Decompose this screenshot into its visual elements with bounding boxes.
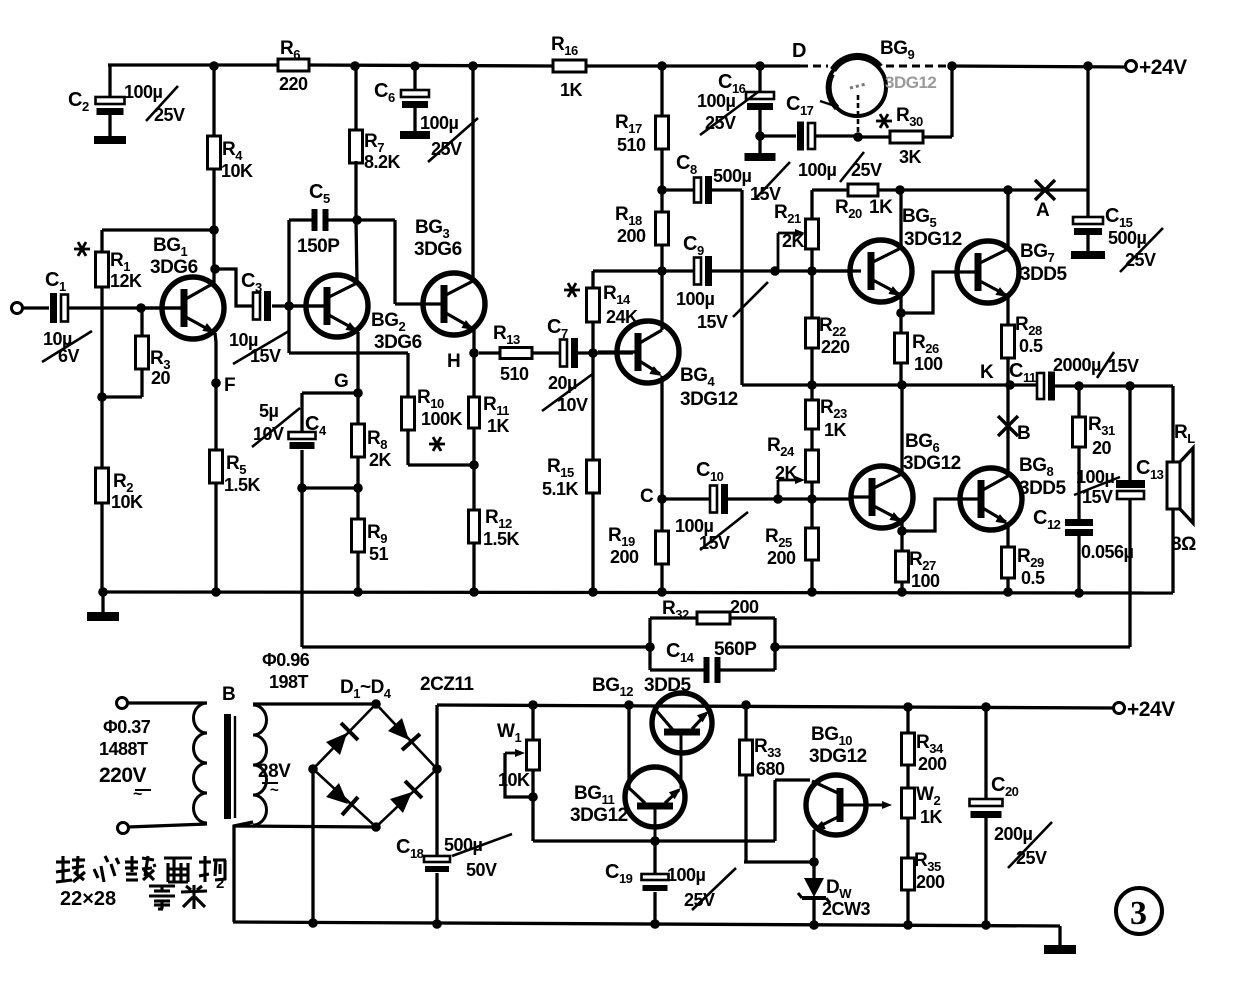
- svg-text:25V: 25V: [1125, 250, 1156, 270]
- resistor R5 1.5K: [214, 383, 217, 450]
- capacitor C6 100µ/25V: [413, 66, 416, 90]
- capacitor C15 500µ/25V: [1086, 190, 1089, 217]
- rheostat W2 1K: [902, 788, 915, 818]
- svg-text:100µ: 100µ: [798, 160, 837, 180]
- svg-text:B: B: [1017, 423, 1030, 444]
- svg-text:200: 200: [767, 548, 796, 568]
- svg-text:3: 3: [1130, 895, 1147, 932]
- node R2 top junction: [97, 392, 107, 402]
- wire feedback to R32 C14: [300, 488, 303, 647]
- svg-text:3DG12: 3DG12: [885, 73, 936, 92]
- resistor R12 1.5K: [472, 465, 475, 510]
- svg-text:220V: 220V: [99, 764, 147, 787]
- svg-text:100µ: 100µ: [124, 82, 163, 102]
- transformer core: [224, 714, 231, 819]
- resistor R1 12K: [100, 230, 103, 252]
- svg-text:5.1K: 5.1K: [542, 479, 579, 499]
- svg-text:1488T: 1488T: [99, 739, 148, 759]
- svg-text:~: ~: [133, 786, 142, 803]
- svg-text:25V: 25V: [851, 160, 882, 180]
- svg-text:C: C: [640, 486, 654, 507]
- wire BG1 collector to C3: [210, 264, 220, 274]
- capacitor C14 560P: [650, 668, 704, 671]
- node BG10 emitter junction: [809, 857, 819, 867]
- resistor R7 8.2K: [354, 66, 357, 130]
- svg-text:200: 200: [610, 547, 639, 567]
- svg-text:B: B: [222, 684, 235, 705]
- svg-text:10V: 10V: [253, 424, 284, 444]
- capacitor C5 150P: [287, 220, 290, 353]
- svg-text:510: 510: [500, 364, 529, 384]
- transistor BG9 3DG12 bias: [828, 58, 886, 116]
- node rail junctions: [209, 61, 219, 71]
- svg-text:5µ: 5µ: [259, 401, 279, 421]
- svg-text:22×28: 22×28: [60, 888, 116, 910]
- wire primary leads: [127, 701, 207, 704]
- resistor R14 24K: [591, 271, 594, 288]
- node G: [353, 388, 363, 398]
- node BG4 base junction: [588, 348, 598, 358]
- wire feedback to output: [775, 645, 1130, 648]
- resistor R30 3K: [890, 131, 923, 143]
- node A cut mark: [1035, 180, 1055, 200]
- svg-text:3DD5: 3DD5: [1020, 264, 1068, 285]
- node input terminal: [12, 303, 23, 314]
- svg-text:6V: 6V: [58, 346, 80, 366]
- svg-text:3DD5: 3DD5: [644, 675, 692, 696]
- svg-text:3DG12: 3DG12: [809, 746, 867, 767]
- resistor R23 1K: [810, 385, 813, 400]
- resistor R13 510: [479, 351, 500, 354]
- wire power rail bottom: [437, 705, 1114, 708]
- resistor R3 20: [140, 308, 143, 336]
- resistor R27 100: [900, 531, 903, 551]
- wire +24V to A node line: [1086, 66, 1089, 190]
- svg-text:200µ: 200µ: [994, 824, 1033, 844]
- svg-text:100µ: 100µ: [420, 113, 459, 133]
- svg-text:3DG12: 3DG12: [680, 389, 738, 410]
- diode D2: [388, 718, 409, 740]
- rheostat R24 2K: [806, 450, 819, 482]
- svg-text:2CW3: 2CW3: [822, 899, 870, 919]
- svg-text:500µ: 500µ: [713, 166, 752, 186]
- resistor R2 10K: [100, 308, 103, 397]
- node ground junctions: [98, 587, 108, 597]
- transistor BG1 3DG6: [162, 277, 224, 339]
- resistor R28 0.5: [1002, 325, 1015, 358]
- transistor BG10 3DG12: [806, 775, 866, 835]
- wire input: [22, 306, 49, 309]
- svg-text:Φ0.96: Φ0.96: [262, 650, 310, 670]
- transistor BG4 3DG12: [617, 321, 679, 383]
- node +24V terminal top: [1126, 61, 1137, 72]
- svg-text:200: 200: [916, 872, 945, 892]
- resistor R34 200: [906, 707, 909, 733]
- resistor R16 1K: [553, 60, 586, 72]
- wire R33 to zener node: [744, 860, 814, 863]
- svg-text:G: G: [334, 371, 348, 392]
- svg-text:100µ: 100µ: [667, 865, 706, 885]
- resistor R8 2K: [356, 393, 359, 424]
- node C16 C17 junction: [755, 131, 765, 141]
- svg-text:3DG6: 3DG6: [414, 239, 462, 260]
- rheostat R21 2K: [810, 190, 813, 219]
- svg-text:510: 510: [617, 135, 646, 155]
- ground symbol left: [101, 592, 104, 612]
- diode D1: [326, 733, 347, 755]
- wire bridge positive: [435, 705, 438, 856]
- svg-text:12K: 12K: [110, 271, 142, 291]
- svg-text:~: ~: [270, 782, 279, 799]
- svg-text:2: 2: [216, 875, 224, 892]
- node C4 R8 R9 junction: [297, 483, 307, 493]
- rheostat W1 10K: [531, 705, 534, 740]
- svg-text:10V: 10V: [557, 395, 588, 415]
- resistor R35 200: [902, 858, 915, 890]
- node BG9 emitter junction: [853, 132, 863, 142]
- svg-text:3DG6: 3DG6: [374, 332, 422, 353]
- svg-text:560P: 560P: [714, 639, 757, 660]
- zener diode DW 2CW3: [812, 862, 815, 878]
- bridge rectifier D1~D4 2CZ11: [313, 704, 437, 827]
- transistor BG7 3DD5: [957, 241, 1019, 303]
- node R28 BG8 collector junction K: [1005, 380, 1015, 390]
- node C: [657, 494, 667, 504]
- svg-text:1K: 1K: [487, 416, 510, 436]
- svg-text:0.5: 0.5: [1021, 568, 1045, 588]
- capacitor C13 100µ/15V: [1128, 386, 1131, 480]
- svg-text:2K: 2K: [782, 231, 805, 251]
- node C13 junction: [1125, 381, 1135, 391]
- resistor R32 200: [648, 618, 651, 670]
- resistor R17 510: [660, 66, 663, 116]
- node C5 R7 junction: [352, 215, 362, 225]
- svg-text:+24V: +24V: [1139, 56, 1187, 79]
- diode D3: [326, 783, 348, 804]
- speaker RL 8ohm: [1167, 462, 1180, 509]
- resistor R19 200: [660, 499, 663, 531]
- svg-text:+24V: +24V: [1127, 698, 1175, 721]
- capacitor C11 2000µ/15V: [1037, 373, 1044, 399]
- ground symbol bottom right: [1058, 926, 1061, 945]
- resistor R10 100K: [402, 397, 415, 430]
- ground at C16: [745, 153, 776, 161]
- node BG1 base junction: [136, 303, 146, 313]
- svg-text:100: 100: [911, 571, 940, 591]
- transistor BG12 3DD5: [652, 693, 712, 753]
- svg-text:20: 20: [151, 368, 171, 388]
- resistor R20 1K: [848, 184, 878, 196]
- capacitor C4 5µ/10V: [289, 432, 316, 439]
- node feedback left junction: [645, 642, 655, 652]
- node BG5 collector junction: [895, 185, 905, 195]
- node R25 junction: [807, 494, 817, 504]
- svg-text:100K: 100K: [421, 409, 463, 429]
- resistor R25 200: [810, 499, 813, 528]
- node BG6 emitter junction: [897, 526, 907, 536]
- node bridge corners: [371, 699, 381, 709]
- node R21 tap junction: [770, 266, 780, 276]
- svg-text:2CZ11: 2CZ11: [420, 674, 474, 695]
- svg-text:Φ0.37: Φ0.37: [103, 717, 151, 737]
- resistor R4 10K: [212, 66, 215, 136]
- resistor R26 100: [899, 313, 902, 333]
- svg-text:3DD5: 3DD5: [1019, 478, 1067, 499]
- resistor R9 51: [356, 488, 359, 519]
- node R24 tap junction lower: [773, 494, 783, 504]
- svg-text:28V: 28V: [258, 761, 291, 782]
- wire ground rail: [103, 592, 1173, 593]
- diode D4: [390, 792, 412, 813]
- node feedback right junction: [770, 642, 780, 652]
- wire R1 top to R4 node: [102, 228, 214, 231]
- wire C16 from rail: [758, 66, 761, 92]
- svg-text:3DG12: 3DG12: [570, 805, 628, 826]
- wire W1 to BG11 base and BG10 collector: [533, 839, 775, 842]
- svg-text:200: 200: [730, 597, 759, 617]
- capacitor C10 100µ/15V: [662, 497, 709, 500]
- node C5 to BG2 base junction: [284, 301, 294, 311]
- svg-text:100: 100: [914, 354, 943, 374]
- wire G to C4: [302, 391, 358, 394]
- capacitor C8 500µ/15V: [662, 188, 693, 191]
- capacitor C19 100µ/25V: [653, 841, 656, 874]
- resistor R18 200: [660, 190, 663, 212]
- svg-text:1K: 1K: [560, 80, 583, 100]
- svg-text:2K: 2K: [775, 463, 798, 483]
- resistor R29 0.5: [1002, 547, 1015, 578]
- wire BG6 emitter to BG8 base: [902, 499, 962, 531]
- resistor R31 20: [1077, 386, 1080, 417]
- svg-text:100µ: 100µ: [697, 91, 736, 111]
- node R17 R18 C8 junction: [657, 185, 667, 195]
- capacitor C9 100µ/15V: [662, 269, 693, 272]
- node R31 junction: [1074, 381, 1084, 391]
- svg-text:25V: 25V: [1016, 848, 1047, 868]
- transistor BG11 3DG12: [625, 767, 685, 827]
- resistor R6 220: [278, 59, 309, 71]
- resistor R33 680: [744, 705, 747, 740]
- svg-text:680: 680: [756, 759, 785, 779]
- wire rail to +24V terminal: [950, 66, 1130, 67]
- svg-text:H: H: [447, 351, 460, 372]
- node R26 BG6 collector junction: [897, 380, 907, 390]
- svg-text:15V: 15V: [699, 533, 730, 553]
- svg-text:15V: 15V: [697, 312, 728, 332]
- capacitor C2: [108, 65, 111, 97]
- svg-text:2000µ: 2000µ: [1053, 355, 1101, 375]
- node R22 junction: [807, 266, 817, 276]
- transistor BG8 3DD5: [960, 468, 1022, 530]
- capacitor C3 10µ/15V: [253, 293, 260, 320]
- page number 3: [1116, 888, 1162, 934]
- svg-text:D: D: [792, 40, 806, 62]
- svg-text:3DG12: 3DG12: [903, 453, 961, 474]
- svg-text:1K: 1K: [920, 807, 943, 827]
- svg-text:25V: 25V: [705, 113, 736, 133]
- capacitor C12 0.056µ: [1077, 447, 1080, 519]
- capacitor C16 100µ/25V: [746, 92, 774, 99]
- svg-text:220: 220: [279, 74, 308, 94]
- svg-text:15V: 15V: [750, 184, 781, 204]
- svg-text:3DG6: 3DG6: [150, 257, 198, 278]
- svg-text:1.5K: 1.5K: [483, 529, 520, 549]
- node BG7 collector junction: [1003, 185, 1013, 195]
- transformer primary winding: [194, 703, 208, 823]
- ground at C6: [400, 131, 430, 139]
- svg-text:25V: 25V: [684, 890, 715, 910]
- svg-text:8.2K: 8.2K: [364, 152, 401, 172]
- svg-text:F: F: [224, 375, 235, 396]
- wire BG2 base bias line to R10: [289, 351, 408, 354]
- svg-text:51: 51: [369, 544, 389, 564]
- wire +24V top rail: [108, 63, 278, 66]
- transistor BG5 3DG12: [818, 269, 861, 272]
- ground at C2: [94, 136, 126, 144]
- transistor BG2 3DG6: [306, 275, 368, 337]
- svg-text:A: A: [1036, 200, 1050, 221]
- svg-text:50V: 50V: [466, 860, 497, 880]
- svg-text:200: 200: [918, 754, 947, 774]
- node +24V terminal bottom: [1114, 703, 1125, 714]
- svg-text:0.5: 0.5: [1019, 336, 1043, 356]
- wire dashed rail at BG9: [800, 65, 828, 68]
- svg-text:10K: 10K: [498, 770, 530, 790]
- svg-text:0.056µ: 0.056µ: [1081, 542, 1134, 562]
- capacitor C7 20µ/10V: [560, 340, 567, 367]
- node rail junctions bottom: [528, 700, 538, 710]
- svg-text:25V: 25V: [154, 105, 185, 125]
- node bottom rail junctions: [308, 918, 318, 928]
- transistor BG6 3DG12: [851, 466, 913, 528]
- svg-text:15V: 15V: [1082, 487, 1113, 507]
- svg-text:100µ: 100µ: [676, 289, 715, 309]
- svg-text:15V: 15V: [250, 346, 281, 366]
- resistor R22 220: [810, 271, 813, 318]
- wire BG5 emitter to BG7 base: [901, 272, 957, 313]
- node BG5 emitter junction: [896, 308, 906, 318]
- capacitor C1 10µ/6V: [50, 293, 57, 323]
- wire bridge negative to ground: [311, 769, 314, 924]
- node F: [211, 378, 221, 388]
- svg-text:100µ: 100µ: [1076, 467, 1115, 487]
- svg-text:150P: 150P: [297, 236, 340, 257]
- ground at C15: [1071, 251, 1105, 259]
- svg-text:25V: 25V: [431, 139, 462, 159]
- svg-text:1K: 1K: [824, 420, 847, 440]
- resistor R11 1K: [472, 353, 475, 397]
- transistor BG3 3DG6: [423, 273, 485, 335]
- wire secondary leads: [253, 702, 376, 705]
- node R10 R11 R12 junction: [469, 460, 479, 470]
- node R22 R23 junction: [807, 380, 817, 390]
- svg-text:8Ω: 8Ω: [1171, 534, 1196, 555]
- capacitor C17 100µ/25V: [760, 134, 796, 137]
- svg-text:15V: 15V: [1108, 356, 1139, 376]
- note core cross-section text: [56, 860, 70, 863]
- svg-text:10K: 10K: [111, 492, 143, 512]
- svg-text:1K: 1K: [869, 197, 893, 218]
- svg-text:220: 220: [821, 337, 850, 357]
- svg-text:3K: 3K: [899, 147, 922, 167]
- wire BG3 base: [357, 218, 395, 221]
- svg-text:20: 20: [1092, 438, 1112, 458]
- node B cut mark: [998, 416, 1018, 436]
- wire output node line: [742, 383, 1036, 386]
- svg-text:198T: 198T: [269, 672, 309, 692]
- node BG11 base junction: [650, 836, 660, 846]
- node H: [469, 348, 479, 358]
- svg-text:3DG12: 3DG12: [904, 229, 962, 250]
- svg-text:2K: 2K: [369, 450, 392, 470]
- wire speaker branch: [1171, 386, 1174, 462]
- transformer secondary winding 28V: [253, 705, 267, 825]
- svg-text:10K: 10K: [221, 161, 253, 181]
- capacitor C20 200µ/25V: [984, 707, 987, 799]
- svg-text:K: K: [980, 362, 994, 383]
- capacitor C18 500µ/50V: [424, 856, 450, 862]
- node mains terminals: [117, 698, 128, 709]
- resistor R15 5.1K: [591, 353, 594, 460]
- wire bottom ground rail: [233, 922, 1060, 926]
- svg-text:1.5K: 1.5K: [224, 475, 261, 495]
- svg-text:200: 200: [617, 226, 646, 246]
- svg-text:500µ: 500µ: [1108, 228, 1147, 248]
- node R18 C9 R14 junction: [657, 266, 667, 276]
